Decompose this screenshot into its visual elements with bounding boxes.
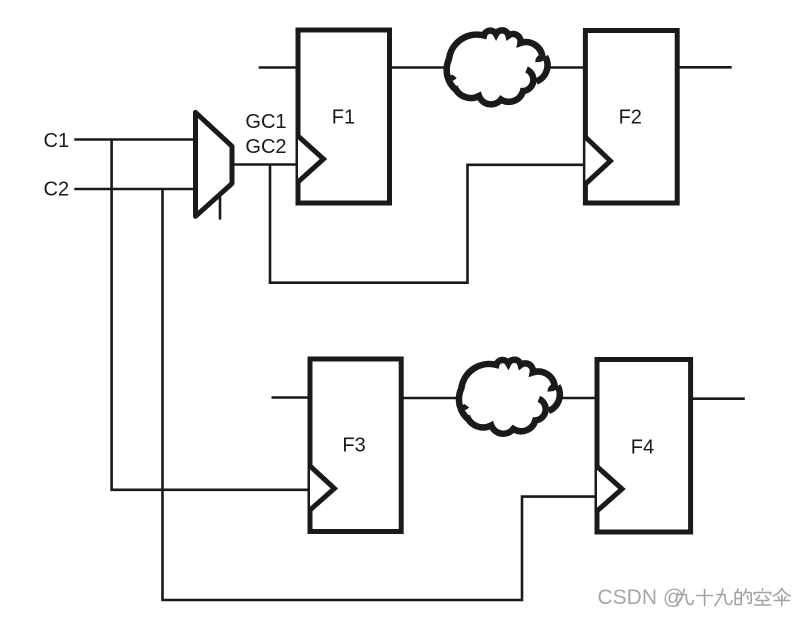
watermark CSDN [598,586,791,610]
flip-flop F4 box [597,360,691,533]
wire: mux output branch to F2 clock [270,165,587,283]
svg-text:GC1: GC1 [245,111,286,133]
cloud 2 (combinational logic between F3 and F4) [458,360,560,434]
svg-text:F2: F2 [619,107,642,129]
svg-text:GC2: GC2 [245,136,286,158]
cloud 1 (combinational logic between F1 and F2) [445,30,547,104]
wire: mux select stub [219,197,222,220]
svg-text:C2: C2 [44,179,70,201]
svg-text:F1: F1 [332,107,355,129]
wire: F1 to F2 through cloud [390,66,586,69]
wire: F4 output [690,397,745,400]
watermark glyph jiu1 [676,589,693,606]
wire: mux output to F1 clock [233,163,300,166]
watermark glyph kong [755,589,771,606]
watermark glyph de [735,589,751,605]
svg-text:F3: F3 [342,435,365,457]
flip-flop F3 box [310,359,401,532]
watermark glyph san [773,589,790,606]
wire: C2 branch down along bottom to F4 clock [163,189,600,600]
svg-text:F4: F4 [631,436,654,458]
wire: F2 output [676,66,732,69]
wire: F3 data input stub [272,396,313,399]
F4 clock triangle [597,467,622,512]
watermark glyph shi [697,590,713,606]
wire: C2 input [74,188,198,191]
wire: C1 branch down to F3 clock [112,140,312,490]
flip-flop F2 box [585,31,677,204]
F3 clock triangle [310,466,334,510]
mux U1 [196,112,233,216]
wire: F3 to F4 through cloud [400,397,597,400]
wire: C1 input [74,138,198,141]
svg-text:CSDN @: CSDN @ [598,586,685,609]
watermark glyph jiu2 [715,589,732,606]
wire: F1 data input stub [259,66,298,69]
svg-text:C1: C1 [44,130,70,152]
F1 clock triangle [298,136,324,182]
F2 clock triangle [585,137,610,184]
flip-flop F1 box [298,30,390,203]
